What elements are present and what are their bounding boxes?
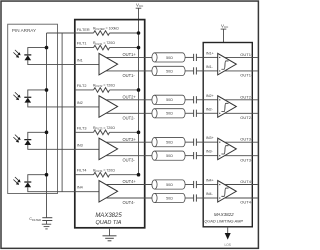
wire capacitor to IN2+ pin — [196, 99, 203, 101]
svg-text:RFILT2 = 720Ω: RFILT2 = 720Ω — [93, 84, 115, 89]
svg-text:OUT4+: OUT4+ — [123, 179, 137, 184]
photodiode D2 light arrows — [13, 92, 20, 100]
svg-text:IN2-: IN2- — [206, 107, 214, 111]
resistor RFILT4 = 720 — [93, 168, 139, 177]
ground (CFILTER) — [42, 221, 51, 229]
svg-text:50Ω: 50Ω — [166, 98, 173, 102]
wire FILT3 to resistor — [75, 131, 94, 133]
wire line to capacitor (+) — [185, 56, 194, 58]
wire OUT4+ (TIA to line) — [106, 184, 152, 186]
capacitor coupling C (IN1+) — [194, 54, 197, 61]
svg-text:LOS: LOS — [225, 243, 231, 247]
junction RFILT1 / VCC rail — [137, 46, 141, 50]
op-amp TIA A2 (MAX3825 ch2) — [99, 96, 118, 118]
svg-text:IN2: IN2 — [77, 101, 83, 105]
wire IN4+ inside MAX3822 — [203, 184, 218, 186]
wire D1 anode to IN1 — [28, 60, 75, 65]
capacitor coupling C (IN4-) — [194, 194, 197, 201]
wire OUT2+ (MAX3822 out) — [225, 99, 258, 101]
svg-text:OUT2-: OUT2- — [123, 115, 136, 120]
op-amp TIA A3 (MAX3825 ch3) — [99, 138, 118, 160]
photodiode D1 — [24, 55, 31, 60]
svg-text:IN1-: IN1- — [206, 65, 214, 69]
output arrow below MAX3822 (LOS) — [225, 227, 231, 247]
capacitor coupling C (IN4+) — [194, 181, 197, 188]
svg-text:OUT3+: OUT3+ — [240, 137, 254, 142]
capacitor coupling C (IN3-) — [194, 152, 197, 159]
svg-text:RFILT1 = 720Ω: RFILT1 = 720Ω — [93, 41, 115, 46]
wire IN1+ inside MAX3822 — [203, 56, 218, 58]
junction D1 cathode / FILTER rail — [45, 46, 49, 50]
svg-text:OUT1+: OUT1+ — [240, 52, 254, 57]
op-amp TIA A4 (MAX3825 ch4) — [99, 181, 118, 203]
wire IN3- inside MAX3822 — [203, 155, 218, 157]
svg-text:RFILT3 = 720Ω: RFILT3 = 720Ω — [93, 126, 115, 131]
wire OUT3- (MAX3822 out) — [225, 155, 258, 157]
wire OUT2- (TIA to line) — [106, 112, 152, 114]
transmission line 50 ohm (OUT4+) — [152, 180, 185, 189]
wire D3 cathode to FILTER rail — [28, 132, 47, 140]
limiting amplifier U2A (MAX3822 ch1) — [218, 53, 237, 75]
resistor RFILT1 = 720 — [93, 41, 139, 50]
wire capacitor to IN4+ pin — [196, 184, 203, 186]
svg-text:OUT3+: OUT3+ — [123, 137, 137, 142]
svg-text:OUT2+: OUT2+ — [240, 94, 254, 99]
wire D4 cathode to FILTER rail — [28, 175, 47, 183]
wire capacitor to IN4- pin — [196, 197, 203, 199]
wire OUT3+ (MAX3822 out) — [225, 141, 258, 143]
wire line to capacitor (-) — [185, 197, 194, 199]
transmission line 50 ohm (OUT2-) — [152, 109, 185, 118]
svg-text:QUAD LIMITING AMP: QUAD LIMITING AMP — [204, 218, 243, 223]
svg-text:IN3+: IN3+ — [206, 136, 214, 140]
IC U1 MAX3825 QUAD TIA box — [75, 20, 145, 228]
wire D4 anode to IN4 — [28, 187, 75, 192]
svg-text:IN4-: IN4- — [206, 192, 214, 196]
capacitor coupling C (IN2-) — [194, 110, 197, 117]
svg-text:OUT4-: OUT4- — [123, 200, 136, 205]
wire IN3+ inside MAX3822 — [203, 141, 218, 143]
transmission line 50 ohm (OUT1+) — [152, 53, 185, 62]
svg-text:FILT2: FILT2 — [77, 84, 87, 88]
wire line to capacitor (+) — [185, 99, 194, 101]
svg-text:OUT1+: OUT1+ — [123, 52, 137, 57]
wire OUT2- (MAX3822 out) — [225, 112, 258, 114]
svg-text:50Ω: 50Ω — [166, 56, 173, 60]
svg-text:RFILTER = 100kΩ: RFILTER = 100kΩ — [93, 27, 119, 32]
junction D2 cathode / FILTER rail — [45, 88, 49, 92]
svg-text:IN1: IN1 — [77, 59, 83, 63]
svg-text:50Ω: 50Ω — [166, 196, 173, 200]
junction RFILT4 / VCC rail — [137, 173, 141, 177]
photodiode D4 light arrows — [13, 177, 20, 185]
op-amp TIA A1 (MAX3825 ch1) — [99, 53, 118, 75]
svg-text:50Ω: 50Ω — [166, 141, 173, 145]
svg-text:IN3: IN3 — [77, 143, 83, 147]
svg-text:PIN ARRAY: PIN ARRAY — [12, 28, 36, 33]
svg-text:VCC: VCC — [221, 23, 229, 29]
svg-text:OUT2-: OUT2- — [240, 115, 253, 120]
svg-text:OUT4+: OUT4+ — [240, 179, 254, 184]
wire capacitor to IN3- pin — [196, 155, 203, 157]
svg-text:MAX3822: MAX3822 — [214, 212, 234, 217]
wire IN2+ inside MAX3822 — [203, 99, 218, 101]
wire VCC rail inside MAX3825 — [138, 20, 140, 175]
wire capacitor to IN2- pin — [196, 112, 203, 114]
limiting amplifier U2D (MAX3822 ch4) — [218, 181, 237, 203]
wire OUT4- (TIA to line) — [106, 197, 152, 199]
photodiode D1 light arrows — [13, 50, 20, 58]
wire D1 cathode to FILTER rail — [28, 48, 47, 56]
capacitor coupling C (IN1-) — [194, 67, 197, 74]
wire IN1- inside MAX3822 — [203, 70, 218, 72]
svg-text:50Ω: 50Ω — [166, 183, 173, 187]
photodiode D4 — [24, 182, 31, 187]
capacitor CFILTER — [29, 217, 52, 222]
wire line to capacitor (-) — [185, 155, 194, 157]
power VCC (MAX3825) — [136, 2, 144, 19]
wire capacitor to IN1+ pin — [196, 56, 203, 58]
svg-text:FILT1: FILT1 — [77, 42, 87, 46]
wire OUT4+ (MAX3822 out) — [225, 184, 258, 186]
node FILTER pin wire — [47, 32, 94, 34]
wire OUT3+ (TIA to line) — [106, 141, 152, 143]
wire FILT4 to resistor — [75, 174, 94, 176]
wire IN3 to amplifier — [75, 148, 99, 150]
svg-text:50Ω: 50Ω — [166, 112, 173, 116]
wire FILTER branch to IN4 row — [61, 33, 63, 192]
svg-text:OUT3-: OUT3- — [240, 157, 253, 162]
wire capacitor to IN3+ pin — [196, 141, 203, 143]
svg-text:CFILTER: CFILTER — [29, 217, 41, 222]
power VCC (MAX3822) — [221, 23, 229, 42]
junction RFILT2 / VCC rail — [137, 88, 141, 92]
photodiode D3 light arrows — [13, 135, 20, 143]
wire FILT1 to resistor — [75, 47, 94, 49]
wire IN4 to amplifier — [75, 191, 99, 193]
wire line to capacitor (+) — [185, 141, 194, 143]
svg-text:IN1+: IN1+ — [206, 52, 214, 56]
ground (MAX3825 GND) — [103, 229, 117, 241]
junction on VCC rail (FILTER) — [137, 31, 141, 35]
limiting amplifier U2C (MAX3822 ch3) — [218, 138, 237, 160]
resistor RFILTER = 100k — [93, 27, 139, 36]
svg-text:FILT3: FILT3 — [77, 126, 87, 130]
wire line to capacitor (+) — [185, 184, 194, 186]
PIN array module box — [8, 24, 58, 193]
svg-text:50Ω: 50Ω — [166, 69, 173, 73]
svg-text:IN2+: IN2+ — [206, 94, 214, 98]
junction D3 cathode / FILTER rail — [45, 131, 49, 135]
photodiode D2 — [24, 97, 31, 102]
transmission line 50 ohm (OUT3+) — [152, 138, 185, 147]
wire OUT4- (MAX3822 out) — [225, 197, 258, 199]
wire OUT1- (TIA to line) — [106, 70, 152, 72]
wire D2 cathode to FILTER rail — [28, 90, 47, 98]
svg-text:RFILT4 = 720Ω: RFILT4 = 720Ω — [93, 168, 115, 173]
transmission line 50 ohm (OUT4-) — [152, 193, 185, 202]
wire OUT3- (TIA to line) — [106, 155, 152, 157]
resistor RFILT2 = 720 — [93, 84, 139, 93]
wire line to capacitor (-) — [185, 112, 194, 114]
wire D2 anode to IN2 — [28, 102, 75, 107]
wire line to capacitor (-) — [185, 70, 194, 72]
svg-text:IN4: IN4 — [77, 186, 83, 190]
svg-text:OUT2+: OUT2+ — [123, 94, 137, 99]
wire OUT1+ (TIA to line) — [106, 56, 152, 58]
svg-text:QUAD TIA: QUAD TIA — [96, 220, 122, 226]
resistor RFILT3 = 720 — [93, 126, 139, 135]
junction RFILT3 / VCC rail — [137, 131, 141, 135]
svg-text:OUT1-: OUT1- — [240, 73, 253, 78]
wire capacitor to IN1- pin — [196, 70, 203, 72]
wire IN1 to amplifier — [75, 64, 99, 66]
svg-text:VCC: VCC — [136, 2, 144, 8]
wire IN4- inside MAX3822 — [203, 197, 218, 199]
wire D3 anode to IN3 — [28, 145, 75, 150]
svg-text:OUT4-: OUT4- — [240, 200, 253, 205]
svg-text:IN3-: IN3- — [206, 150, 214, 154]
capacitor coupling C (IN2+) — [194, 96, 197, 103]
wire IN2- inside MAX3822 — [203, 112, 218, 114]
capacitor coupling C (IN3+) — [194, 139, 197, 146]
wire FILTER bias rail — [46, 33, 48, 218]
wire IN2 to amplifier — [75, 106, 99, 108]
svg-text:MAX3825: MAX3825 — [95, 213, 122, 219]
svg-text:IN4+: IN4+ — [206, 179, 214, 183]
transmission line 50 ohm (OUT3-) — [152, 151, 185, 160]
wire OUT1- (MAX3822 out) — [225, 70, 258, 72]
transmission line 50 ohm (OUT2+) — [152, 95, 185, 104]
photodiode D3 — [24, 140, 31, 145]
transmission line 50 ohm (OUT1-) — [152, 66, 185, 75]
wire OUT1+ (MAX3822 out) — [225, 56, 258, 58]
svg-text:FILTER: FILTER — [77, 28, 90, 32]
limiting amplifier U2B (MAX3822 ch2) — [218, 96, 237, 118]
svg-text:FILT4: FILT4 — [77, 169, 87, 173]
wire OUT2+ (TIA to line) — [106, 99, 152, 101]
svg-text:OUT3-: OUT3- — [123, 158, 136, 163]
svg-text:OUT1-: OUT1- — [123, 73, 136, 78]
wire FILT2 to resistor — [75, 89, 94, 91]
IC U2 MAX3822 QUAD LIMITING AMP box — [203, 43, 252, 227]
svg-text:50Ω: 50Ω — [166, 154, 173, 158]
junction D4 cathode / FILTER rail — [45, 173, 49, 177]
